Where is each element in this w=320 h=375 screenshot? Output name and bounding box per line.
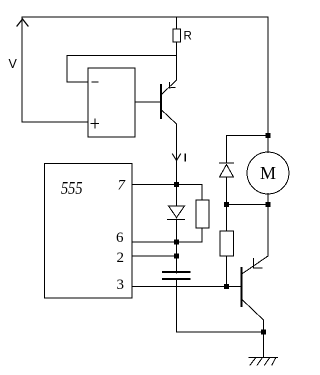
svg-text:M: M	[260, 163, 276, 183]
resistor R2	[196, 185, 209, 243]
555 timer U2	[45, 164, 133, 299]
junction: pin7 / Q1 collector node	[174, 182, 179, 187]
resistor R3	[220, 205, 234, 287]
junction: D2/R3 node	[224, 202, 229, 207]
arrow: up arrow at top of V rail	[17, 19, 28, 26]
svg-text:555: 555	[61, 178, 83, 198]
svg-text:6: 6	[116, 230, 124, 246]
wire: right rail down from top	[267, 17, 269, 136]
wire: pin 7 to R2 top	[132, 184, 202, 186]
svg-text:R: R	[184, 31, 192, 43]
junction: pin6 node	[174, 240, 179, 245]
wire: top node to D2	[227, 135, 269, 137]
wire: V source to op-amp + input	[22, 121, 88, 123]
wire: pin 6 to R2 bottom	[132, 241, 202, 243]
wire: feedback from R1 bottom to op-amp - input	[67, 56, 177, 83]
junction: top right node	[266, 133, 271, 138]
arrow: current I annotation	[173, 154, 181, 161]
svg-text:2: 2	[117, 250, 125, 266]
motor M1	[247, 136, 289, 205]
junction: motor bottom node	[266, 202, 271, 207]
label I	[184, 153, 186, 161]
capacitor C1	[162, 271, 191, 332]
diode D1	[168, 185, 185, 274]
op-amp U1	[88, 68, 135, 137]
wire: D2 bottom to motor bottom	[227, 204, 269, 206]
wire: bottom wire capacitor to Q2 emitter	[177, 331, 264, 333]
svg-text:V: V	[9, 57, 18, 71]
transistor Q1	[161, 80, 177, 185]
wire: pin 3 to Q2 base	[132, 286, 241, 288]
resistor R1	[173, 17, 181, 80]
svg-text:3: 3	[117, 277, 125, 293]
transistor Q2	[242, 205, 269, 333]
diode D2	[220, 136, 234, 205]
junction: pin3 / R3 node	[224, 284, 229, 289]
wire: top supply rail	[22, 16, 268, 18]
wire: op-amp output to Q1 base	[135, 101, 160, 103]
ground	[249, 332, 278, 365]
junction: pin2 node	[174, 254, 179, 259]
wire: pin 2	[132, 255, 177, 257]
wire: left rail from V source	[21, 17, 23, 122]
junction: emitter/ground node	[261, 330, 266, 335]
